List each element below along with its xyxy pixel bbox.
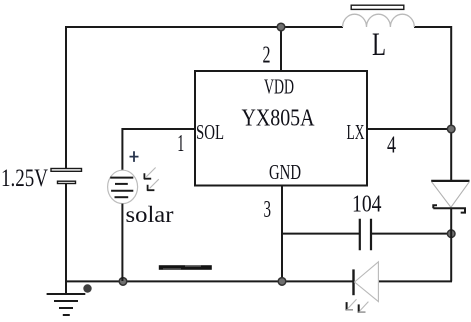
solar cell plates [110,178,133,198]
ground [47,294,86,315]
battery B1 1.25V top plate [51,169,82,172]
wire bottom rail right of LED [379,280,452,282]
svg-text:YX805A: YX805A [242,106,316,132]
svg-text:VDD: VDD [264,75,294,99]
inductor L core bar [351,5,404,9]
svg-text:solar: solar [126,202,174,227]
junction dot solar bottom [119,278,127,286]
wire VDD pin 2 vertical [280,27,282,71]
svg-text:4: 4 [387,133,396,159]
switch jumper bar [159,265,212,270]
stray dark dot near ground [83,284,91,292]
svg-text:L: L [372,27,386,63]
wire left rail bottom: battery negative to ground [65,184,67,294]
svg-text:3: 3 [264,197,272,223]
solar light arrow 1 [144,168,156,180]
LED D2 cathode bar [352,269,354,295]
wire LX pin 4 to right rail [367,128,451,130]
wire top horizontal from battery to inductor [66,26,343,28]
wire GND pin 3 vertical [281,186,283,282]
wire SOL pin 1 from solar cell [122,129,196,171]
LED light arrow 2 [358,302,368,313]
inductor L winding arcs [343,14,415,27]
junction dot top (VDD tap) [277,23,285,31]
svg-text:2: 2 [263,43,271,69]
solar light arrow 2 [147,179,159,191]
diode D1 triangle sides [432,182,470,208]
solar plus sign [130,151,139,162]
svg-text:GND: GND [269,160,301,184]
wire inductor right to top-right corner and down right rail [414,27,451,181]
IC U1 YX805A body [195,71,367,186]
capacitor C1 plates [360,219,371,251]
battery B1 bottom plate [58,181,76,183]
wire bottom rail left of LED [65,280,353,282]
wire left rail top: battery positive down from top wire [65,26,67,169]
wire solar cell bottom stem [121,204,123,281]
wire capacitor left from GND pin [282,233,360,235]
svg-text:SOL: SOL [196,120,224,144]
svg-text:1: 1 [177,131,184,157]
LED light arrow 1 [346,299,356,310]
diode D1 schottky anode bar [431,180,469,182]
svg-text:LX: LX [347,120,365,144]
junction dot GND pin bottom [278,278,286,286]
junction dot right rail at LX [447,125,455,133]
diode D1 schottky cathode bar with hooks [433,205,465,212]
wire capacitor right to right rail [371,233,452,235]
junction dot right rail at capacitor [447,230,455,238]
wire right rail below schottky [450,208,452,281]
svg-text:104: 104 [352,192,382,218]
svg-text:1.25V: 1.25V [1,165,48,192]
solar cell body ellipse [108,170,138,203]
LED D2 triangle [355,262,379,302]
